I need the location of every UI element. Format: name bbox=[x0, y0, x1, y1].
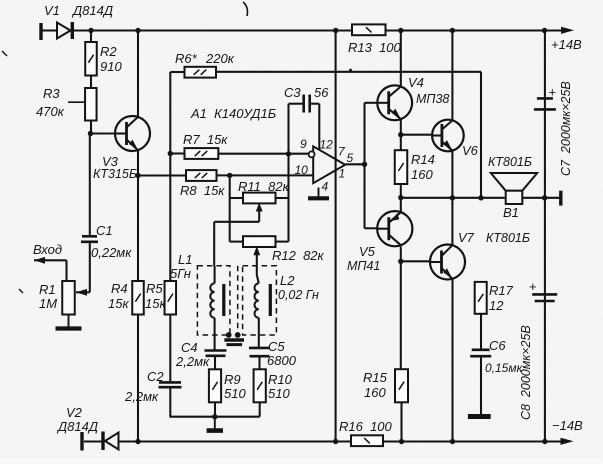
inductor L1 dashed box bbox=[197, 266, 230, 335]
wire bottom rail right bbox=[383, 440, 561, 442]
wire L1 top bbox=[214, 266, 216, 283]
wire L2 bottom bbox=[258, 318, 260, 348]
node base junction bbox=[88, 131, 93, 136]
potentiometer R12 82к bbox=[243, 236, 276, 247]
wire R3 label leader bbox=[68, 101, 85, 103]
wire C3 left bbox=[287, 104, 289, 154]
wire bbox=[84, 440, 105, 442]
wire V4 collector bbox=[400, 31, 402, 87]
wire R11 wiper run bbox=[214, 221, 259, 223]
wire R5 column upper bbox=[169, 72, 171, 281]
node junction V4e bbox=[398, 132, 403, 137]
wire bbox=[170, 152, 184, 154]
node junction R15-rail bbox=[399, 439, 404, 444]
resistor R10 bbox=[254, 369, 266, 402]
wire bottom rail left bbox=[118, 440, 351, 442]
resistor R17 bbox=[475, 282, 487, 314]
capacitor C7 2000мк bbox=[537, 97, 553, 100]
core adjuster bars bbox=[224, 338, 244, 341]
ground C6 bbox=[468, 414, 491, 419]
wire V4 base bbox=[365, 102, 378, 104]
node output terminal - bbox=[80, 432, 83, 451]
wire L2 top bbox=[256, 266, 258, 275]
node +14V arrow bbox=[561, 27, 574, 34]
wire bbox=[89, 242, 91, 292]
wire stray mark left bbox=[2, 51, 7, 56]
wire R10 down bbox=[259, 402, 261, 416]
wire top rail right bbox=[386, 29, 563, 31]
node junction C7-rail bbox=[542, 28, 547, 33]
node output terminal bbox=[559, 191, 562, 206]
node junction R8-R11 bbox=[227, 173, 232, 178]
capacitor C5 6800 bbox=[249, 347, 270, 350]
node junction V6c-rail bbox=[450, 28, 455, 33]
wire R17-C6 bbox=[480, 314, 482, 350]
node output junction bbox=[362, 162, 367, 167]
resistor R4 bbox=[132, 281, 144, 315]
wire V3 collector up bbox=[137, 31, 139, 118]
wire emitter to R8 bbox=[138, 174, 186, 176]
resistor R2 bbox=[85, 42, 97, 76]
resistor R7 bbox=[185, 148, 219, 159]
node junction out-R14 bbox=[398, 195, 403, 200]
resistor R6 bbox=[185, 67, 217, 78]
speaker B1 bbox=[491, 173, 537, 191]
node junction R17-out bbox=[478, 195, 483, 200]
node junction C8-rail bbox=[542, 439, 547, 444]
ground pin4 bbox=[318, 188, 320, 199]
wire output row bbox=[401, 197, 506, 199]
inductor L2 winding bbox=[254, 283, 258, 317]
wire bbox=[90, 31, 92, 43]
wire to V7 base bbox=[401, 260, 430, 262]
wire R15 down bbox=[400, 402, 402, 441]
wire bbox=[400, 184, 402, 212]
pin 9 inversion bubble bbox=[309, 151, 315, 157]
node junction R6R7 bbox=[168, 151, 173, 156]
wire opamp output bbox=[346, 163, 365, 165]
node junction V5e bbox=[398, 259, 403, 264]
node -14V arrow bbox=[561, 438, 574, 445]
wire C3 right bbox=[310, 103, 320, 105]
wire bbox=[90, 121, 92, 134]
wire bbox=[65, 260, 67, 281]
resistor R9 bbox=[209, 369, 221, 402]
diode V1 Д814Д bbox=[57, 23, 71, 39]
transistor V3 КТ315Б bbox=[115, 116, 150, 151]
wire V3 base bbox=[91, 132, 116, 134]
wire C7 column bbox=[544, 31, 546, 198]
op-amp U1 A1 bbox=[313, 146, 345, 183]
capacitor C4 2,2мк bbox=[205, 349, 227, 352]
wire V5 base bbox=[365, 227, 378, 229]
node junction gnd mid bbox=[212, 414, 217, 419]
node junction V6V7-out bbox=[450, 195, 455, 200]
ground mid bbox=[214, 417, 216, 431]
node core dot A bbox=[226, 332, 232, 338]
capacitor C1 0,22мк bbox=[82, 235, 97, 238]
capacitor C2 2,2мк bbox=[159, 381, 181, 384]
wire C8 column bbox=[544, 198, 546, 442]
wire bbox=[90, 76, 92, 89]
wire C6 down bbox=[480, 356, 482, 414]
wire V4 emitter bbox=[400, 119, 402, 150]
wire top rail left bbox=[73, 29, 352, 31]
node core dot B bbox=[235, 332, 241, 338]
wire R7 to pin9 bbox=[218, 153, 308, 155]
wire R12 right bbox=[276, 241, 289, 243]
wire bbox=[42, 29, 57, 31]
wire R5 to C2 bbox=[169, 315, 171, 383]
wire bbox=[230, 241, 243, 243]
resistor R16 bbox=[351, 435, 383, 446]
wire V5 emitter down bbox=[400, 247, 402, 370]
node junction R4-rail bbox=[135, 439, 140, 444]
resistor R3 bbox=[85, 88, 97, 121]
inductor L1 winding bbox=[210, 283, 214, 317]
wire common core dashed bbox=[237, 266, 239, 335]
wire bbox=[230, 197, 243, 199]
resistor R13 bbox=[352, 24, 386, 35]
wire R11 right bbox=[276, 197, 289, 199]
wire V6 emitter bbox=[451, 151, 453, 246]
wire bbox=[229, 175, 231, 241]
node junction pin1-rail bbox=[333, 439, 338, 444]
node input terminal + bbox=[39, 23, 42, 40]
wire pin1 supply bbox=[335, 165, 337, 442]
wire R6 feedback run bbox=[216, 71, 481, 73]
wire bbox=[89, 134, 91, 237]
node junction opamp7-rail bbox=[333, 28, 338, 33]
wire pin7 supply bbox=[335, 31, 337, 166]
transistor V6 КТ801Б bbox=[432, 120, 464, 152]
wire L1 bottom bbox=[214, 318, 216, 351]
node junction R2-rail bbox=[88, 28, 93, 33]
wire driver base column bbox=[363, 103, 365, 229]
wire bbox=[214, 356, 216, 370]
wire stray mark top bbox=[243, 2, 248, 16]
wire stray mark left2 bbox=[19, 289, 23, 293]
inductor L2 core bbox=[269, 284, 272, 316]
wire V6 collector bbox=[451, 31, 453, 121]
wire R9 down bbox=[214, 402, 216, 416]
diode V2 Д814Д bbox=[101, 432, 104, 451]
wire output right bbox=[522, 197, 559, 199]
resistor R14 bbox=[395, 150, 408, 184]
wire R1 wiper bbox=[76, 291, 90, 293]
node junction C78-out bbox=[542, 195, 547, 200]
node junction V7e-rail bbox=[450, 439, 455, 444]
wire input arrow bbox=[34, 259, 67, 261]
inductor L2 dashed box bbox=[243, 266, 277, 335]
node junction V3c-rail bbox=[135, 28, 140, 33]
capacitor C6 0,15мк bbox=[472, 348, 490, 351]
wire V3 emitter down bbox=[137, 150, 139, 281]
wire to V6 base bbox=[401, 134, 432, 136]
ground under R1 bbox=[68, 315, 70, 329]
transistor V4 МП38 bbox=[377, 85, 412, 120]
potentiometer R1 1M bbox=[62, 281, 75, 315]
wire V7 emitter bbox=[451, 279, 453, 442]
transistor V7 КТ801Б bbox=[430, 245, 465, 280]
inductor L1 core bbox=[222, 284, 225, 316]
potentiometer R11 82к bbox=[243, 193, 276, 204]
capacitor C3 56 bbox=[302, 95, 305, 113]
wire pin9 column bbox=[287, 154, 289, 242]
wire stray speck bbox=[349, 69, 352, 72]
resistor R15 bbox=[395, 369, 408, 402]
resistor R5 bbox=[165, 281, 177, 315]
resistor R8 bbox=[186, 170, 217, 181]
wire bbox=[258, 356, 260, 369]
wire R4 down bbox=[137, 315, 139, 442]
transistor V5 МП41 bbox=[377, 211, 412, 246]
wire C2 down bbox=[169, 387, 171, 417]
wire R8 to pin10 bbox=[217, 174, 315, 176]
node junction V4c-rail bbox=[398, 28, 403, 33]
capacitor C8 2000мк bbox=[532, 293, 557, 296]
node junction pin9 net bbox=[286, 151, 291, 156]
wire R6 left bbox=[170, 71, 184, 73]
node emitter junction bbox=[135, 173, 140, 178]
